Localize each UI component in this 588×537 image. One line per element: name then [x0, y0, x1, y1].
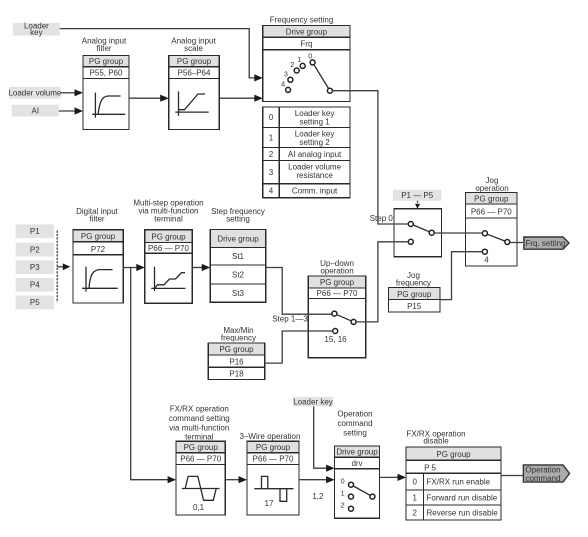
node Loader key (bottom tag) — [293, 397, 333, 407]
table frequency setting options — [263, 107, 350, 198]
node P2 (tag) — [16, 243, 54, 257]
svg-text:0: 0 — [341, 476, 345, 485]
node P1 - P5 (tag) — [393, 190, 441, 201]
svg-text:disable: disable — [423, 437, 449, 446]
svg-text:setting: setting — [343, 429, 367, 438]
svg-text:3: 3 — [284, 69, 288, 78]
block U4 Digital input filter — [73, 230, 123, 303]
svg-text:P2: P2 — [30, 245, 40, 254]
node P1 (tag) — [16, 224, 54, 238]
svg-text:0: 0 — [269, 113, 274, 122]
block U15 FX/RX operation disable — [406, 447, 501, 520]
svg-text:PG group: PG group — [219, 345, 254, 354]
svg-text:Drive group: Drive group — [217, 235, 259, 244]
label Multi-step operation via multi-function terminal — [133, 199, 203, 224]
svg-text:PG group: PG group — [177, 57, 212, 66]
graph filter curve — [92, 93, 125, 118]
svg-text:operation: operation — [320, 267, 353, 276]
node Operation command (chevron) — [523, 465, 569, 483]
svg-text:command: command — [337, 419, 372, 428]
label Jog frequency — [396, 271, 431, 288]
wire P1-P5 dashed to Step 0 box — [415, 201, 420, 209]
svg-text:St2: St2 — [232, 271, 245, 280]
svg-text:2: 2 — [269, 150, 274, 159]
svg-text:drv: drv — [351, 459, 362, 468]
svg-text:P15: P15 — [407, 302, 422, 311]
node P5 (tag) — [16, 296, 54, 310]
graph 3-wire pulses — [254, 476, 293, 507]
svg-text:4: 4 — [269, 187, 274, 196]
node Loader volume (tag) — [8, 87, 61, 99]
svg-text:Drive group: Drive group — [336, 448, 378, 457]
svg-text:terminal: terminal — [185, 433, 214, 442]
svg-text:via multi-function: via multi-function — [169, 423, 229, 432]
svg-text:P66 — P70: P66 — P70 — [317, 289, 358, 298]
label Operation command setting — [337, 410, 372, 438]
node AI (tag) — [12, 105, 59, 117]
wire up-down common to Step 0 switch — [356, 242, 408, 322]
svg-text:command: command — [525, 474, 560, 483]
svg-text:4: 4 — [281, 79, 285, 88]
svg-text:Operation: Operation — [337, 410, 372, 419]
svg-text:Step 1—3: Step 1—3 — [272, 315, 308, 324]
svg-text:setting: setting — [226, 215, 250, 224]
block U5 Multi-step operation — [145, 230, 192, 303]
svg-text:PG group: PG group — [320, 278, 355, 287]
node P3 (tag) — [16, 260, 54, 274]
svg-text:2: 2 — [412, 508, 417, 517]
svg-text:terminal: terminal — [154, 215, 183, 224]
svg-text:P66 — P70: P66 — P70 — [471, 207, 512, 216]
wire operation command to FX/RX disable — [380, 474, 407, 481]
block U6 Step frequency setting — [210, 230, 266, 303]
svg-text:P 5: P 5 — [424, 463, 436, 472]
block U13 3-Wire operation — [247, 441, 299, 515]
svg-text:scale: scale — [184, 44, 203, 53]
svg-text:Comm. input: Comm. input — [292, 187, 338, 196]
label Step frequency setting — [211, 207, 265, 224]
svg-text:key: key — [30, 28, 42, 37]
svg-text:P72: P72 — [91, 245, 106, 254]
svg-text:AI analog input: AI analog input — [288, 150, 342, 159]
svg-text:filter: filter — [96, 44, 111, 53]
block U8 Up-down operation — [308, 276, 366, 358]
svg-text:St1: St1 — [232, 252, 245, 261]
label Max/Min frequency — [221, 326, 256, 343]
svg-text:P4: P4 — [30, 281, 40, 290]
wire frequency selector common to Step 0 switch — [333, 91, 409, 224]
svg-text:setting 1: setting 1 — [299, 118, 330, 127]
label Jog operation — [475, 176, 508, 193]
block U1 Analog input filter — [83, 55, 129, 129]
svg-text:PG group: PG group — [151, 232, 186, 241]
svg-text:Loader volume: Loader volume — [8, 89, 61, 98]
block U10 Jog operation — [466, 192, 518, 266]
svg-text:Frq: Frq — [300, 40, 312, 49]
svg-text:P55, P60: P55, P60 — [90, 69, 123, 78]
svg-text:AI: AI — [32, 107, 40, 116]
svg-text:Loader key: Loader key — [293, 397, 333, 406]
svg-text:PG group: PG group — [184, 443, 219, 452]
wire loader key to operation command setting — [314, 407, 335, 472]
svg-text:Frequency setting: Frequency setting — [270, 15, 334, 24]
switch SW1 frequency source selector — [281, 52, 332, 93]
graph FX/RX waveform — [182, 476, 220, 511]
label FX/RX operation disable — [406, 429, 465, 445]
wire step frequency to up-down switch (Step 1-3) — [266, 268, 332, 315]
label Up-down operation — [320, 259, 354, 276]
svg-text:17: 17 — [265, 499, 274, 508]
wire FX/RX to 3-wire operation — [225, 476, 247, 483]
wire jog frequency P15 to jog switch — [440, 252, 482, 300]
svg-text:filter: filter — [89, 215, 104, 224]
svg-text:1: 1 — [297, 55, 301, 64]
svg-text:PG group: PG group — [89, 57, 124, 66]
svg-text:Drive group: Drive group — [286, 28, 328, 37]
svg-text:Step 0: Step 0 — [370, 214, 394, 223]
svg-text:1,2: 1,2 — [312, 492, 324, 501]
svg-text:PG group: PG group — [474, 194, 509, 203]
svg-text:frequency: frequency — [221, 333, 256, 342]
svg-text:FX/RX operation: FX/RX operation — [170, 405, 229, 414]
block U3 Frequency setting selector — [263, 26, 350, 102]
wire Loader volume to Analog input filter — [61, 89, 84, 96]
graph scale curve — [175, 91, 208, 115]
svg-text:1: 1 — [341, 488, 345, 497]
svg-text:P66 — P70: P66 — P70 — [253, 455, 294, 464]
wire jog common to Frq. setting — [510, 242, 523, 244]
svg-text:frequency: frequency — [396, 278, 431, 287]
svg-text:4: 4 — [484, 256, 489, 265]
graph multi-step staircase — [151, 267, 185, 291]
wire Max/Min P16 to up-down switch — [265, 331, 333, 363]
wire 3-wire to operation command setting — [299, 476, 335, 483]
svg-text:2: 2 — [290, 60, 294, 69]
svg-text:FX/RX run enable: FX/RX run enable — [427, 478, 491, 487]
block U2 Analog input scale — [169, 55, 220, 129]
svg-text:PG group: PG group — [436, 450, 471, 459]
block U14 Operation command setting — [335, 446, 380, 518]
wire junction down to FX/RX command setting — [131, 268, 176, 484]
wire AI to Analog input filter — [59, 107, 83, 114]
svg-text:Forward run disable: Forward run disable — [427, 493, 498, 502]
svg-text:P3: P3 — [30, 263, 40, 272]
switch SW5 operation command — [341, 476, 375, 511]
svg-text:P1: P1 — [30, 227, 40, 236]
svg-text:command setting: command setting — [169, 414, 230, 423]
block U12 FX/RX operation command setting — [176, 441, 225, 515]
svg-text:P1 — P5: P1 — P5 — [401, 191, 434, 200]
switch SW3 step 0 — [408, 222, 434, 245]
svg-text:15, 16: 15, 16 — [324, 335, 347, 344]
node P4 (tag) — [16, 278, 54, 292]
label FX/RX operation command setting via multi-function terminal — [169, 405, 230, 442]
wire filter to scale — [129, 95, 169, 102]
label Digital input filter — [76, 207, 119, 224]
svg-text:3–Wire operation: 3–Wire operation — [240, 432, 301, 441]
wire multi-step to step frequency setting — [192, 264, 210, 271]
node Frq. setting (chevron) — [524, 237, 569, 249]
graph digital filter curve — [82, 267, 118, 292]
block U9 Step 0 switch box — [394, 209, 441, 257]
wire scale to Frequency setting — [219, 95, 263, 102]
svg-text:PG group: PG group — [256, 443, 291, 452]
svg-text:3: 3 — [269, 168, 274, 177]
svg-text:setting 2: setting 2 — [299, 138, 330, 147]
svg-text:1: 1 — [412, 493, 417, 502]
svg-text:resistance: resistance — [296, 171, 333, 180]
svg-text:0: 0 — [412, 478, 417, 487]
svg-text:P66 — P70: P66 — P70 — [180, 455, 221, 464]
svg-text:operation: operation — [475, 184, 508, 193]
wire terminal bus (dashed) — [56, 231, 58, 303]
wire bus to digital input filter — [57, 263, 70, 270]
wire FX/RX disable to Operation command chevron — [501, 475, 523, 477]
wire Loader key to Frequency setting — [60, 29, 263, 82]
wire Step 0 common to Jog operation — [434, 232, 482, 234]
block U7 Max/Min frequency — [208, 343, 265, 380]
svg-text:Frq. setting: Frq. setting — [525, 239, 565, 248]
svg-text:2: 2 — [341, 500, 345, 509]
label Analog input filter — [82, 37, 127, 54]
svg-text:P16: P16 — [229, 357, 244, 366]
svg-text:St3: St3 — [232, 289, 245, 298]
svg-text:P66 — P70: P66 — P70 — [148, 244, 189, 253]
wire digital filter to multi-step block (junction to FX/RX below) — [123, 264, 145, 271]
switch SW4 jog — [482, 231, 509, 265]
svg-text:1: 1 — [269, 133, 274, 142]
svg-text:PG group: PG group — [81, 232, 116, 241]
switch SW2 up-down — [324, 311, 356, 344]
node Loader key (top tag) — [13, 22, 60, 37]
svg-text:Reverse run disable: Reverse run disable — [427, 508, 499, 517]
svg-text:P18: P18 — [229, 370, 244, 379]
svg-text:PG group: PG group — [397, 290, 432, 299]
block U11 Jog frequency — [389, 288, 440, 312]
svg-text:0,1: 0,1 — [193, 503, 205, 512]
label Analog input scale — [171, 37, 216, 54]
svg-text:P5: P5 — [30, 298, 40, 307]
svg-text:P56–P64: P56–P64 — [178, 69, 211, 78]
